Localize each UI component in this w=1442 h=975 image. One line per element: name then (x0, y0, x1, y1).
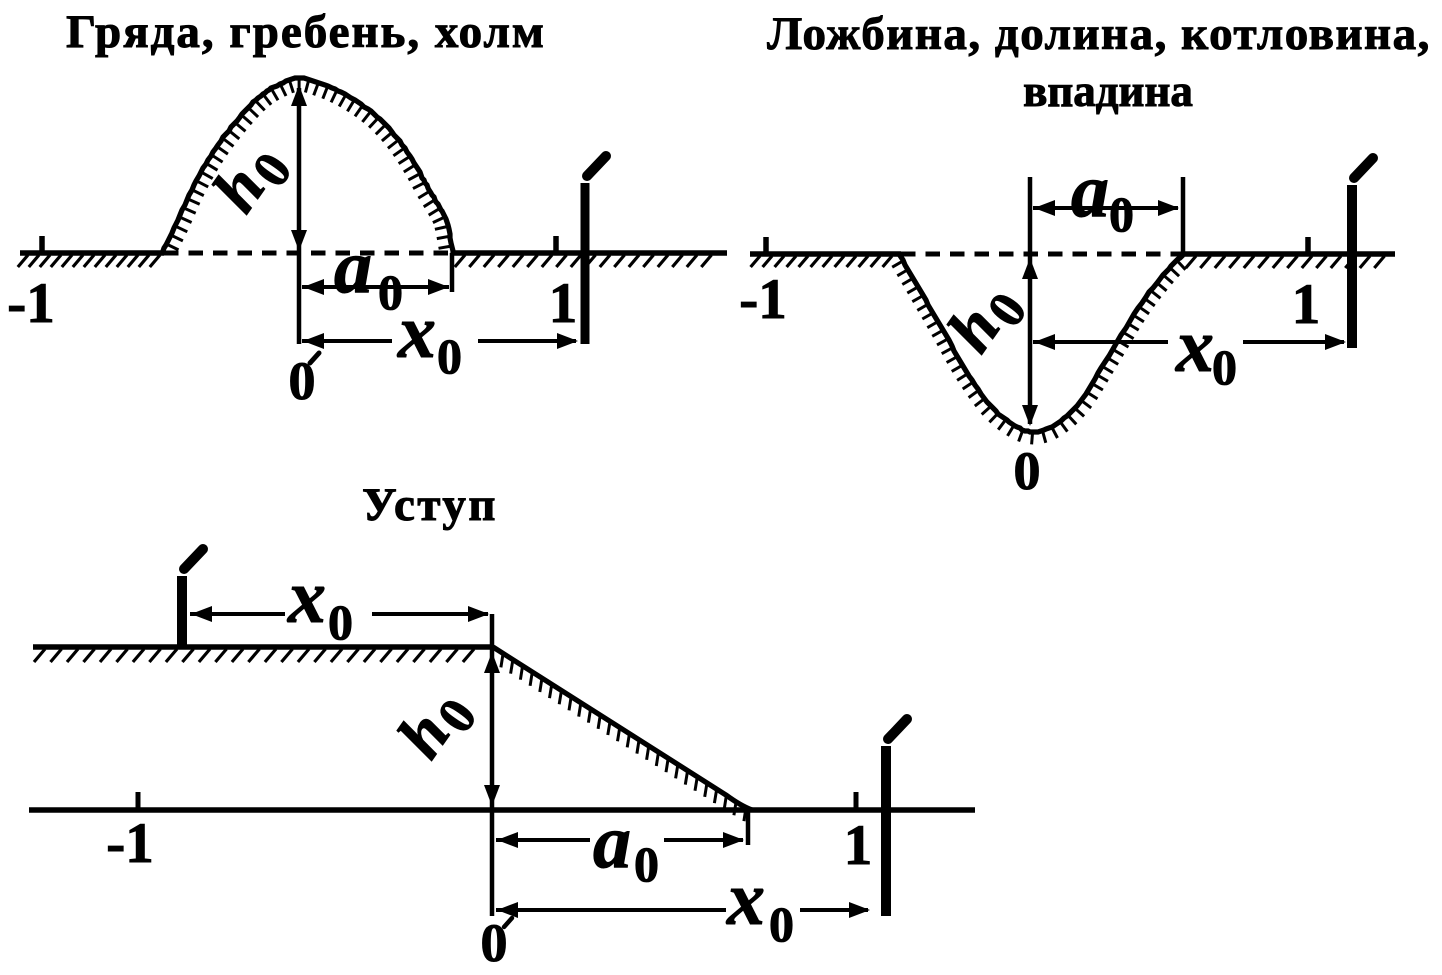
svg-text:-1: -1 (106, 812, 153, 875)
svg-text:Уступ: Уступ (362, 479, 498, 531)
svg-text:0: 0 (634, 836, 659, 892)
svg-text:0: 0 (1014, 441, 1041, 501)
svg-text:1: 1 (549, 272, 578, 335)
svg-text:x: x (1175, 304, 1214, 388)
svg-text:1: 1 (844, 814, 873, 877)
svg-text:x: x (287, 555, 326, 639)
svg-text:0: 0 (328, 594, 353, 650)
svg-text:x: x (726, 857, 765, 941)
svg-text:0: 0 (481, 913, 508, 973)
svg-text:1: 1 (1292, 273, 1321, 336)
svg-text:впадина: впадина (1023, 66, 1193, 116)
svg-text:-1: -1 (739, 268, 786, 331)
svg-text:0: 0 (437, 328, 462, 384)
svg-text:a: a (1071, 149, 1109, 233)
svg-text:a: a (334, 225, 372, 309)
svg-text:0: 0 (1212, 339, 1237, 395)
svg-text:Ложбина, долина, котловина,: Ложбина, долина, котловина, (767, 8, 1431, 60)
svg-text:Гряда, гребень, холм: Гряда, гребень, холм (66, 6, 546, 58)
svg-text:x: x (397, 290, 436, 374)
svg-text:-1: -1 (7, 272, 54, 335)
svg-text:0: 0 (769, 896, 794, 952)
svg-text:a: a (593, 800, 631, 884)
svg-text:0: 0 (1109, 186, 1134, 242)
